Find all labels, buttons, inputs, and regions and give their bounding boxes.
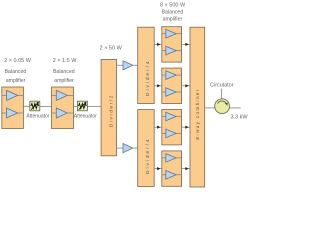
svg-text:amplifier: amplifier: [6, 78, 26, 84]
wire PA1 row 1: [162, 33, 166, 35]
wire D1 bottom output to amplifier A6: [117, 147, 123, 149]
svg-text:2 × 1.5 W: 2 × 1.5 W: [53, 58, 78, 64]
divider D3 box Divider/4 bottom: [138, 110, 155, 187]
amplifier A10 triangle: [166, 88, 176, 97]
wire U1 input row 2: [2, 112, 7, 114]
amplifier A3 triangle: [56, 90, 67, 100]
attenuator AT2: [77, 101, 87, 111]
circulator CR1: [215, 99, 230, 114]
svg-text:Divider/2: Divider/2: [109, 95, 115, 127]
svg-text:2 × 0.05 W: 2 × 0.05 W: [4, 58, 32, 64]
balanced amplifier box U2 (2 x 1.5 W): [52, 87, 74, 129]
wire PA4 to combiner: [182, 168, 190, 170]
amplifier A5 triangle (50 W top): [123, 61, 133, 70]
amplifier A1 triangle: [7, 90, 18, 100]
wire box U2 to attenuator AT2: [74, 105, 78, 107]
arrow into PA box 2: [157, 84, 160, 87]
wire U1 output row 2: [18, 112, 24, 114]
svg-text:Divider/4: Divider/4: [145, 61, 151, 96]
wire PA3 row 2: [162, 132, 166, 134]
amplifier A4 triangle: [56, 108, 67, 118]
wire D2 to PA box 1: [154, 43, 162, 45]
wire U2 output row 2: [67, 112, 73, 114]
svg-text:Circulator: Circulator: [210, 83, 234, 89]
divider D1 box Divider/2: [101, 59, 116, 155]
wire PA2 to combiner: [182, 85, 190, 87]
arrow into PA box 4: [157, 167, 160, 170]
balanced amplifier box PA2 (500 W): [162, 68, 182, 103]
svg-text:2 × 50 W: 2 × 50 W: [100, 46, 123, 52]
amplifier A11 triangle: [166, 112, 176, 121]
divider D2 box Divider/4 top: [138, 27, 155, 103]
svg-text:Balanced: Balanced: [162, 10, 184, 16]
wire PA3 row 1: [162, 116, 166, 118]
amplifier A6 triangle (50 W bottom): [123, 144, 133, 153]
amplifier A12 triangle: [166, 129, 176, 138]
arrow into combiner from PA4: [185, 167, 188, 170]
wire D3 to PA box 3: [154, 126, 162, 128]
wire U2 output row 1: [67, 94, 73, 96]
wire U2 input row 1: [52, 94, 57, 96]
svg-text:amplifier: amplifier: [163, 17, 183, 23]
wire D2 to PA box 2: [154, 85, 162, 87]
amplifier A13 triangle: [166, 154, 176, 163]
svg-text:Balanced: Balanced: [5, 69, 27, 75]
balanced amplifier box PA3 (500 W): [162, 110, 182, 145]
svg-text:3.3 kW: 3.3 kW: [230, 115, 248, 121]
wire PA1 row 2: [162, 50, 166, 52]
svg-text:Attenuator: Attenuator: [74, 113, 97, 119]
svg-text:Balanced: Balanced: [53, 69, 75, 75]
wire box U1 to attenuator AT1: [23, 105, 29, 107]
amplifier A7 triangle: [166, 29, 176, 38]
wire attenuator AT1 to box U2: [40, 105, 52, 107]
wire PA3 to combiner: [182, 126, 190, 128]
amplifier A9 triangle: [166, 71, 176, 80]
svg-text:Attenuator: Attenuator: [26, 113, 49, 119]
arrow into combiner from PA3: [185, 126, 188, 129]
wire A6 to divider D3: [133, 147, 138, 149]
arrow into PA box 1: [157, 43, 160, 46]
arrow into PA box 3: [157, 126, 160, 129]
amplifier A14 triangle: [166, 171, 176, 180]
wire PA2 row 1: [162, 74, 166, 76]
attenuator AT1: [30, 101, 40, 111]
arrow into combiner from PA2: [185, 84, 188, 87]
wire combiner to circulator: [205, 107, 215, 109]
wire circulator output: [230, 107, 241, 109]
wire circulator top port: [221, 89, 223, 99]
wire D3 to PA box 4: [154, 168, 162, 170]
svg-text:8-way combiner: 8-way combiner: [195, 89, 201, 139]
arrow into combiner from PA1: [185, 43, 188, 46]
wire U1 input row 1: [2, 94, 7, 96]
balanced amplifier box PA1 (500 W): [162, 27, 182, 62]
combiner box 8-way combiner: [190, 27, 205, 187]
amplifier A2 triangle: [7, 108, 18, 118]
svg-text:amplifier: amplifier: [54, 78, 74, 84]
balanced amplifier box PA4 (500 W): [162, 151, 182, 186]
wire PA1 to combiner: [182, 43, 190, 45]
balanced amplifier box U1 (2 x 0.05 W): [2, 87, 24, 129]
wire U2 input row 2: [52, 112, 57, 114]
svg-text:8 × 500 W: 8 × 500 W: [160, 2, 186, 8]
wire D1 top output to amplifier A5: [117, 64, 123, 66]
amplifier A8 triangle: [166, 46, 176, 55]
wire PA2 row 2: [162, 91, 166, 93]
wire U1 output row 1: [18, 94, 24, 96]
wire attenuator AT2 to divider D1: [88, 105, 102, 107]
wire A5 to divider D2: [133, 64, 138, 66]
svg-text:Divider/4: Divider/4: [145, 139, 151, 174]
wire PA4 row 1: [162, 157, 166, 159]
wire PA4 row 2: [162, 174, 166, 176]
